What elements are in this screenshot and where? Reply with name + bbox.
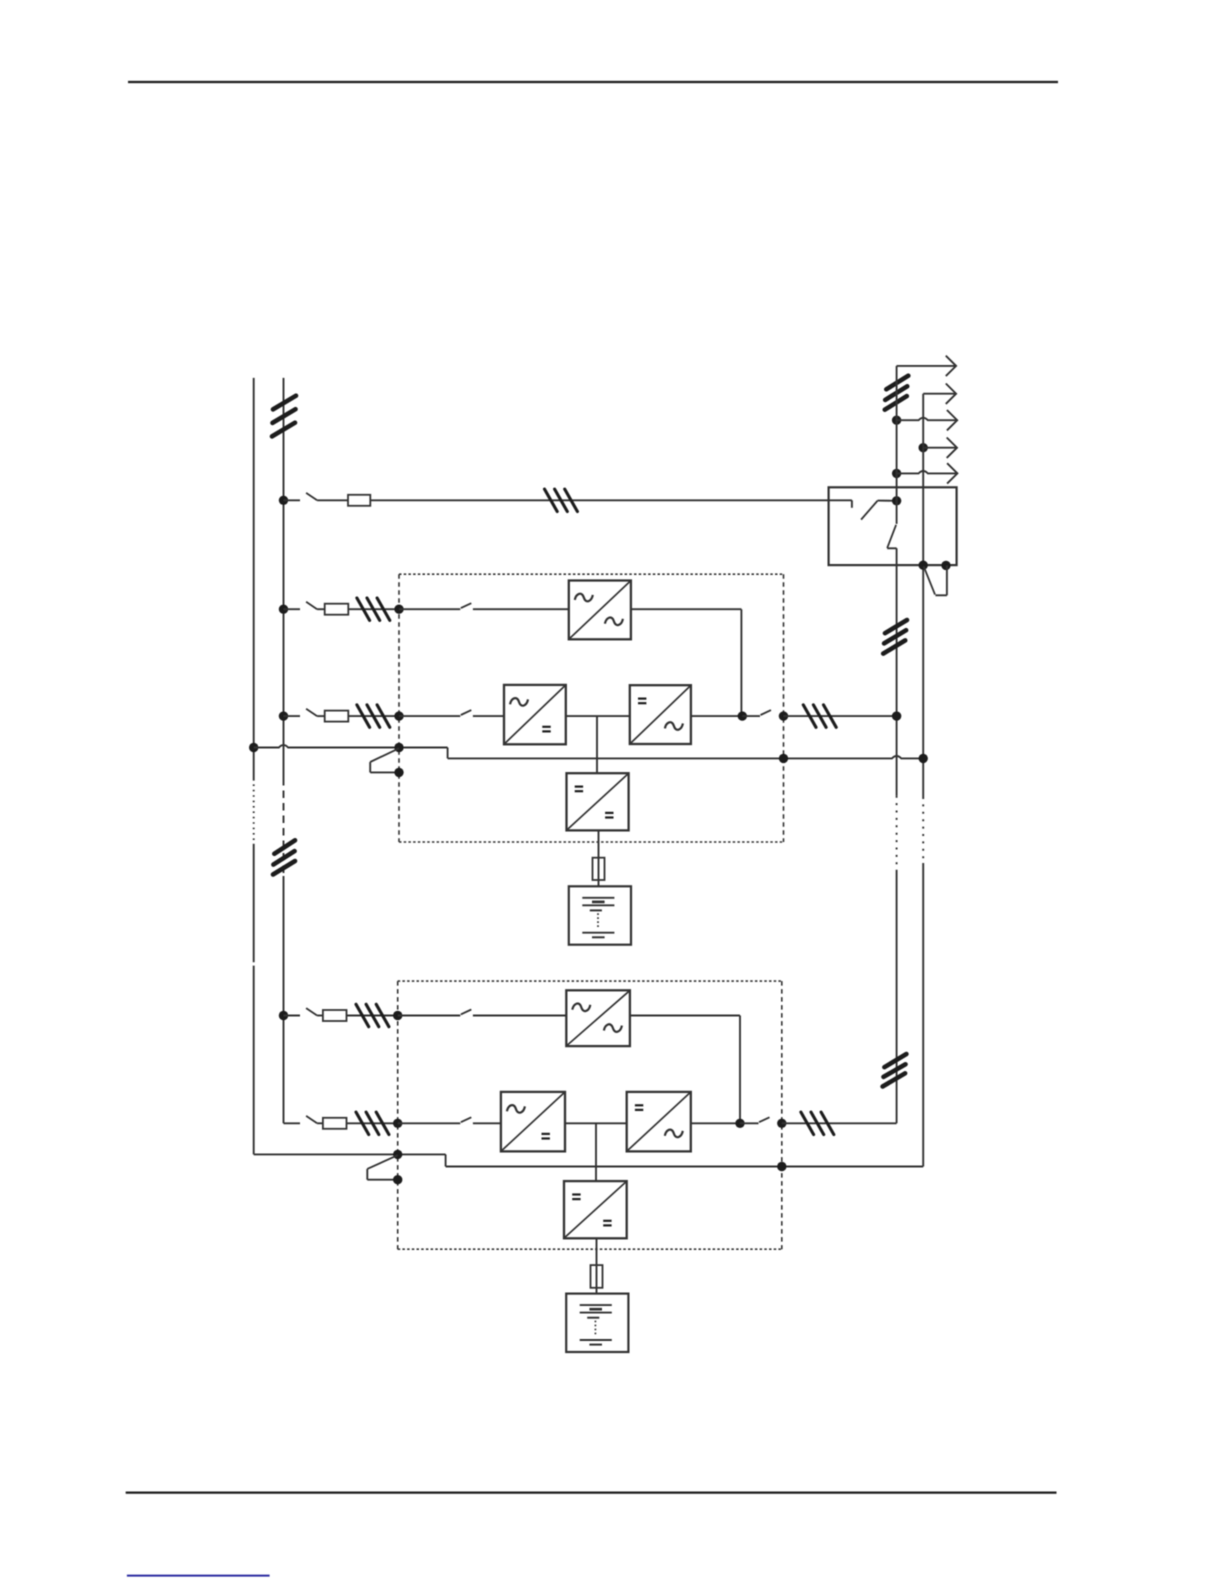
- switch Q1.2 (UPS1 rectifier input isolator): [284, 709, 318, 716]
- node: UPS1 rectifier tap on bus L2: [279, 711, 288, 720]
- wire to fuse F2.2: [317, 1122, 323, 1124]
- 3-phase marks on bus L2 (top): [272, 396, 296, 437]
- UPS 2 enclosure (dashed box): [398, 981, 782, 1249]
- 3-phase marks UPS1 bypass input: [357, 598, 390, 620]
- 3-phase marks UPS2 bypass input: [356, 1004, 389, 1026]
- fuse F2.2: [323, 1118, 347, 1129]
- switch S2.2 (UPS2 rectifier switch): [461, 1117, 472, 1122]
- switch S3 (below cabinet): [924, 565, 947, 595]
- 3-phase marks UPS2 rectifier input: [356, 1112, 389, 1134]
- switch S2.1 (UPS2 static bypass switch): [461, 1010, 472, 1015]
- wire to bypass converter: [473, 608, 569, 610]
- static transfer switch cabinet (enclosure): [829, 487, 957, 565]
- node: UPS1 output junction: [738, 711, 747, 720]
- wire charger to battery fuse: [596, 1238, 598, 1293]
- wire inverter output to node: [691, 715, 742, 717]
- node: transfer node on bus R1: [892, 496, 901, 505]
- node: UPS2 rectifier entry: [393, 1119, 402, 1128]
- fuse F2.3 (UPS2 battery fuse): [591, 1265, 603, 1288]
- wire with phase marks to UPS2 rectifier: [347, 1122, 398, 1124]
- node: maintenance entry on UPS2 edge: [393, 1150, 402, 1159]
- wire DC link UPS1: [566, 715, 630, 717]
- fuse F0 (feeder fuse): [348, 495, 370, 506]
- UPS 1 enclosure (dashed box): [399, 574, 784, 842]
- wire maintenance bypass (hops bus L2): [254, 745, 924, 758]
- 3-phase marks on bus L2 (dashed section): [273, 840, 295, 874]
- wire inverter output to node: [691, 1122, 740, 1124]
- switch Q1.1 (UPS1 bypass input isolator): [284, 602, 318, 609]
- wire to rectifier U2.2: [473, 1122, 501, 1124]
- switch Q2.1 (UPS2 bypass input isolator): [284, 1008, 318, 1015]
- wire to rectifier U1.2: [473, 715, 504, 717]
- wire feeder segment: [317, 499, 348, 501]
- node: UPS2 output exit: [777, 1119, 786, 1128]
- node: cabinet frame tap: [941, 561, 950, 570]
- wire UPS1 output to bus R1: [784, 715, 897, 717]
- node: maintenance exit on UPS2 right edge: [777, 1162, 786, 1171]
- node: maintenance return on UPS1 edge: [394, 768, 403, 777]
- bus L1 (utility input bus 1, vertical): [253, 378, 255, 1155]
- wire to bypass converter U2.1: [473, 1015, 566, 1017]
- load feeder arrow 4: [923, 438, 957, 458]
- wire maintenance bypass UPS2: [254, 1154, 924, 1166]
- switch S1.3 (UPS1 output switch): [761, 710, 772, 715]
- converter U1.4 (UPS1 DC/DC charger): [567, 773, 629, 830]
- switch S2.4 (UPS2 maintenance bypass switch): [367, 1155, 397, 1180]
- wire to fuse F1.2: [317, 715, 325, 717]
- load feeder arrow 1: [897, 356, 957, 376]
- converter U2.2 (UPS2 rectifier, AC/DC): [501, 1092, 565, 1152]
- node: UPS2 bypass tap on bus L2: [279, 1011, 288, 1020]
- 3-phase marks on bus R1 (top): [885, 376, 909, 410]
- node: bus R2 at cabinet bottom: [919, 561, 928, 570]
- converter U1.2 (UPS1 rectifier, AC/DC): [504, 685, 566, 744]
- fuse F1.1: [325, 604, 349, 615]
- battery GB1 (UPS1 battery bank): [569, 886, 631, 944]
- wire to fuse F1.1: [317, 608, 325, 610]
- node: UPS1 rectifier entry: [394, 711, 403, 720]
- load feeder arrow 2: [923, 384, 956, 404]
- wire charger to battery fuse: [598, 830, 600, 886]
- 3-phase marks on bus R1 (below cabinet): [883, 620, 907, 654]
- node: UPS2 bypass entry: [393, 1011, 402, 1020]
- switch S1.4 (UPS1 maintenance bypass switch): [370, 748, 399, 772]
- node: arrow-4 tap on bus R2: [919, 443, 928, 452]
- node: UPS2 output junction: [735, 1119, 744, 1128]
- wire DC tap to charger U2.4: [595, 1123, 597, 1181]
- converter U2.1 (UPS2 static bypass, AC/AC): [566, 990, 630, 1046]
- 3-phase marks on feeder wire: [545, 489, 578, 511]
- node: UPS1 output exit: [779, 711, 788, 720]
- wire with phase marks to UPS1: [348, 608, 399, 610]
- 3-phase marks UPS1 rectifier input: [357, 705, 390, 727]
- wire entry to switch S1.2: [399, 715, 460, 717]
- node: maintenance exit on UPS1 right edge: [779, 754, 788, 763]
- converter U1.1 (UPS1 static bypass, AC/AC): [569, 581, 631, 640]
- switch Q2.2 (UPS2 rectifier input isolator): [284, 1116, 318, 1123]
- switch S1 (bypass infeed contact): [861, 501, 897, 520]
- node: maintenance junction on bus R2: [919, 754, 928, 763]
- 3-phase marks UPS2 output: [801, 1112, 834, 1134]
- switch S1.2 (UPS1 rectifier switch): [461, 710, 472, 715]
- fuse F2.1: [323, 1010, 347, 1021]
- wire entry to switch S2.2: [398, 1122, 461, 1124]
- switch S2.3 (UPS2 output switch): [759, 1117, 770, 1122]
- wire UPS2 bypass output: [630, 1016, 740, 1124]
- wire DC tap to charger U1.4: [596, 716, 598, 773]
- 3-phase marks UPS1 output: [803, 705, 836, 727]
- fuse F1.3 (UPS1 battery fuse): [593, 858, 605, 880]
- switch S1.1 (UPS1 static bypass switch): [461, 603, 472, 608]
- switch Q0 (feeder isolator): [284, 493, 318, 500]
- wire with phase marks to UPS2: [347, 1015, 398, 1017]
- 3-phase marks on bus R1 (lower): [883, 1054, 907, 1087]
- wire to output switch: [742, 715, 760, 717]
- converter U2.3 (UPS2 inverter, DC/AC): [627, 1092, 691, 1152]
- node: UPS1 output on bus R1: [892, 711, 901, 720]
- node: UPS1 bypass tap on bus L2: [279, 605, 288, 614]
- wire UPS1 bypass entry to switch: [399, 608, 460, 610]
- fuse F1.2: [325, 711, 349, 722]
- load feeder arrow 3 (hops bus R2): [897, 410, 958, 430]
- bus R1 (output bus, vertical): [896, 366, 898, 1123]
- wire UPS2 output to bus R1: [782, 1122, 897, 1124]
- wire feeder to static switch cabinet: [370, 500, 852, 508]
- wire to output switch: [740, 1122, 759, 1124]
- node: arrow-3 tap on bus R1: [892, 416, 901, 425]
- battery GB2 (UPS2 battery bank): [566, 1294, 628, 1352]
- bus R2 (bypass bus, vertical): [922, 394, 924, 1167]
- bus L2 (utility input bus 2, vertical): [283, 378, 285, 1123]
- node: UPS1 bypass entry: [394, 605, 403, 614]
- wire UPS1 bypass output: [631, 609, 742, 716]
- wire with phase marks to UPS1 rectifier: [348, 715, 399, 717]
- wire to fuse F2.1: [317, 1015, 323, 1017]
- node: arrow-5 tap on bus R1: [892, 469, 901, 478]
- converter U2.4 (UPS2 DC/DC charger): [564, 1181, 627, 1238]
- node: maintenance entry on UPS1 edge: [394, 743, 403, 752]
- switch S2 (output isolator in cabinet): [887, 525, 896, 549]
- node: feeder tap on bus L2: [279, 496, 288, 505]
- converter U1.3 (UPS1 inverter, DC/AC): [630, 685, 691, 744]
- wire DC link UPS2: [565, 1122, 627, 1124]
- node: maintenance return on UPS2 edge: [393, 1175, 402, 1184]
- load feeder arrow 5 (hops bus R2): [897, 463, 958, 483]
- wire UPS2 bypass entry to switch: [398, 1015, 461, 1017]
- node: maintenance tap on bus L1: [249, 743, 258, 752]
